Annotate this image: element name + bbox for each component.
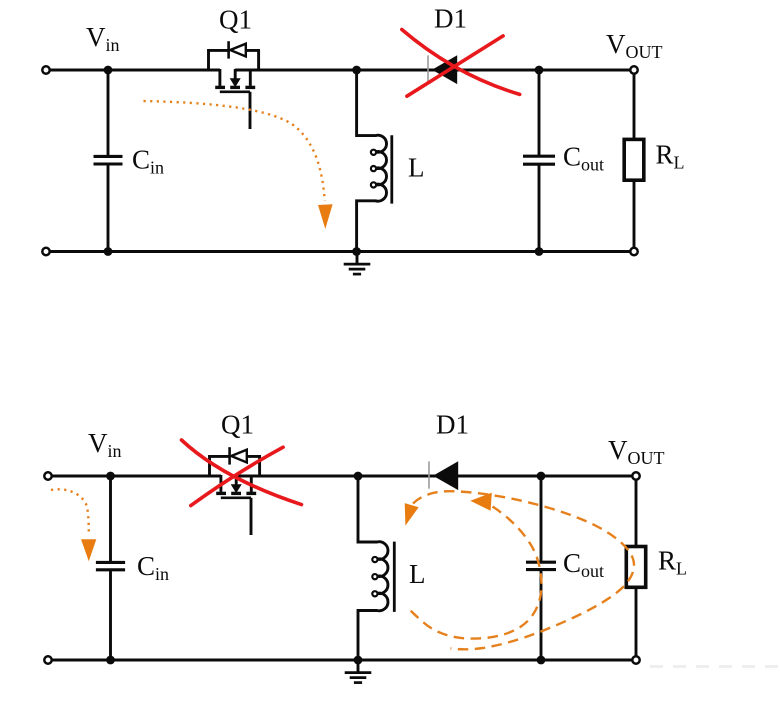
node VOUT terminal bottom xyxy=(630,248,637,255)
inductor L core bar xyxy=(390,135,393,203)
current flow arrow head xyxy=(318,204,333,229)
wire top rail left segment (Vin to Q1 drain), state 2 xyxy=(48,475,221,478)
svg-text:L: L xyxy=(409,559,426,589)
capacitor lead bottom xyxy=(540,571,543,660)
svg-text:L: L xyxy=(408,153,425,183)
faint watermark dashes xyxy=(650,665,780,668)
wire Q1 body-diode loop left stub xyxy=(210,456,230,476)
wire Q1 body-diode loop left stub xyxy=(209,50,229,70)
capacitor plate bottom xyxy=(523,163,555,166)
svg-text:Q1: Q1 xyxy=(219,5,252,35)
Q1 channel bar left xyxy=(215,86,225,89)
inductor L coil curl xyxy=(372,557,377,562)
Q1 substrate arrow stem xyxy=(235,475,238,485)
junction Cin bottom (state 2) xyxy=(106,656,115,665)
ground stub xyxy=(356,252,359,264)
inductor L coil xyxy=(357,70,387,252)
Q1 channel bar right xyxy=(246,492,256,495)
junction Cout top (state 2) xyxy=(537,472,546,481)
resistor lead top xyxy=(635,476,638,547)
Q1 channel bar middle xyxy=(230,86,240,89)
red cross stroke 2 over Q1 xyxy=(191,447,283,505)
capacitor lead bottom xyxy=(107,165,110,251)
wire bottom return rail, state 2 xyxy=(48,659,636,662)
wire top rail right segment (Q1 source through D1 to Vout), state 2 xyxy=(236,475,636,478)
svg-text:Q1: Q1 xyxy=(221,410,254,440)
inductor L coil curl xyxy=(371,182,376,187)
junction Cout bottom xyxy=(535,247,544,256)
inductor L coil curl xyxy=(372,574,377,579)
junction L top xyxy=(352,66,361,75)
ground bar 3 xyxy=(353,273,361,276)
junction Cout top xyxy=(535,66,544,75)
Q1 substrate arrow stem xyxy=(234,69,237,79)
node Vin terminal top (state 2) xyxy=(44,472,51,479)
wire Q1 body-diode loop right stub xyxy=(247,456,260,476)
capacitor lead top xyxy=(107,70,110,155)
wire top rail left segment (Vin to Q1 drain) xyxy=(46,69,220,72)
capacitor plate top xyxy=(523,155,555,158)
wire bottom return rail xyxy=(46,250,634,253)
inductor L coil curl xyxy=(372,591,377,596)
red cross stroke 2 over D1 xyxy=(407,36,503,96)
diode D1 triangle xyxy=(433,461,458,490)
svg-text:D1: D1 xyxy=(434,4,467,34)
ground stub xyxy=(357,660,360,672)
ground bar 1 xyxy=(345,671,372,674)
capacitor plate bottom xyxy=(526,568,556,571)
current flow arrow through Q1 (dotted orange) xyxy=(144,101,325,201)
freewheel inner loop arrow head xyxy=(470,493,492,511)
ground bar 1 xyxy=(344,263,371,266)
junction Cin top xyxy=(104,66,113,75)
freewheel outer loop arrow head xyxy=(405,503,419,525)
Q1 source drop wire xyxy=(249,69,252,86)
Q1 substrate arrow head xyxy=(230,78,241,87)
Q1 channel bar left xyxy=(216,492,226,495)
Q1 gate plate xyxy=(220,91,250,94)
junction Cin top (state 2) xyxy=(106,472,115,481)
red cross stroke 1 over D1 xyxy=(402,30,520,95)
capacitor plate bottom xyxy=(96,568,125,571)
Q1 substrate arrow head xyxy=(231,484,242,493)
junction L bottom (state 2) xyxy=(354,656,363,665)
red cross stroke 1 over Q1 xyxy=(182,440,302,505)
inductor L coil xyxy=(358,476,388,660)
capacitor lead bottom xyxy=(538,165,541,251)
wire Q1 body-diode loop right stub xyxy=(246,50,259,70)
Q1 drain drop wire xyxy=(219,475,222,492)
resistor body xyxy=(624,139,644,180)
freewheel current inner loop (through Cout, dashed orange) xyxy=(407,507,542,639)
svg-text:D1: D1 xyxy=(436,410,469,440)
capacitor plate top xyxy=(96,561,125,564)
inductor L core bar xyxy=(393,542,396,612)
capacitor lead bottom xyxy=(109,571,112,660)
resistor body xyxy=(626,547,645,588)
resistor lead bottom xyxy=(633,180,636,251)
Q1 channel bar right xyxy=(245,86,255,89)
freewheel current outer loop (through RL, dashed orange) xyxy=(413,491,634,649)
node VOUT terminal bottom (state 2) xyxy=(632,656,639,663)
resistor lead bottom xyxy=(635,587,638,660)
ground bar 3 xyxy=(354,681,362,684)
Q1 body diode cathode bar xyxy=(227,41,230,58)
diode D1 cathode bar xyxy=(427,55,429,82)
junction L top (state 2) xyxy=(354,472,363,481)
node VOUT terminal top (state 2) xyxy=(632,472,639,479)
capacitor lead top xyxy=(540,476,543,561)
capacitor lead top xyxy=(109,476,112,561)
Q1 body diode triangle xyxy=(231,450,247,463)
node Vin terminal bottom (state 2) xyxy=(44,656,51,663)
capacitor plate bottom xyxy=(94,162,123,165)
input current arrow head xyxy=(81,539,96,561)
Q1 source drop wire xyxy=(250,475,253,492)
capacitor lead top xyxy=(538,70,541,155)
wire top rail right segment (Q1 source through D1 to Vout) xyxy=(235,69,634,72)
capacitor plate top xyxy=(94,155,123,158)
node Vin terminal bottom xyxy=(42,248,49,255)
diode D1 cathode bar xyxy=(428,461,430,488)
inductor L coil curl xyxy=(371,166,376,171)
diode D1 triangle xyxy=(432,55,457,84)
input current arrow into Cin (dotted orange) xyxy=(51,489,89,536)
Q1 gate lead wire xyxy=(249,92,252,129)
ground bar 2 xyxy=(350,676,367,679)
junction Cin bottom xyxy=(104,247,113,256)
Q1 body diode triangle xyxy=(230,44,246,57)
Q1 drain drop wire xyxy=(218,69,221,86)
Q1 gate plate xyxy=(221,496,251,499)
Q1 gate lead wire xyxy=(250,498,253,535)
Q1 channel bar middle xyxy=(231,492,241,495)
Q1 body diode cathode bar xyxy=(228,447,231,464)
junction Cout bottom (state 2) xyxy=(537,656,546,665)
node Vin terminal top xyxy=(42,66,49,73)
junction L bottom xyxy=(352,247,361,256)
inductor L coil curl xyxy=(371,150,376,155)
node VOUT terminal top xyxy=(630,66,637,73)
capacitor plate top xyxy=(526,561,556,564)
resistor lead top xyxy=(633,70,636,139)
ground bar 2 xyxy=(349,268,366,271)
